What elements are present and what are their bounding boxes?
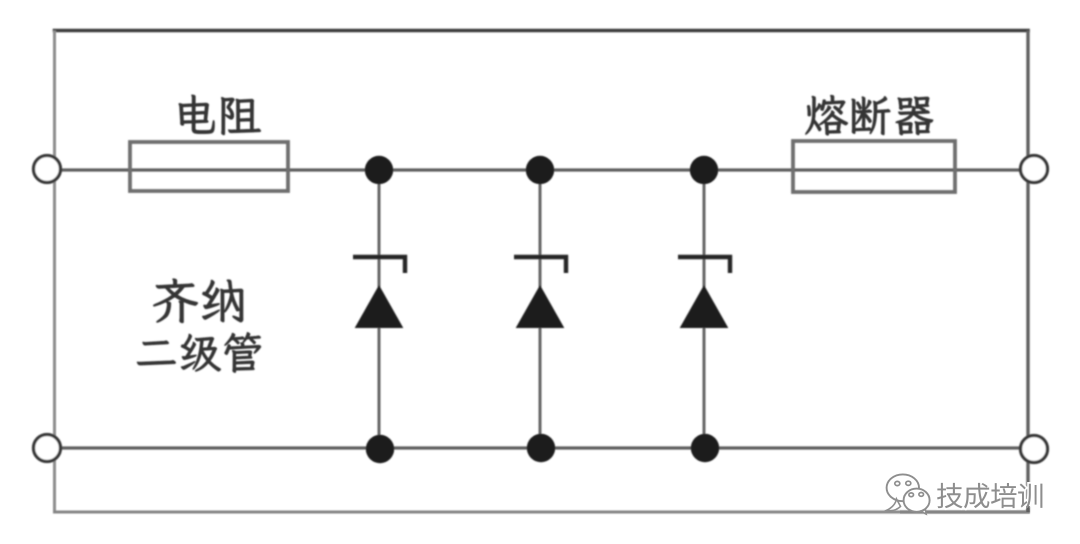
junction bottom node 2 <box>527 434 555 462</box>
resistor R (box symbol) <box>130 142 288 191</box>
terminal: bottom-left input <box>34 435 61 462</box>
terminal: top-right output <box>1021 156 1048 183</box>
zener diode D3 <box>678 257 730 328</box>
wire: zener branch 2 vertical <box>539 170 542 448</box>
label: fuse 熔断器 <box>806 95 933 135</box>
watermark text 技成培训 fill <box>937 483 1042 508</box>
label: zener diodes 齐纳二级管 <box>137 279 261 373</box>
wire: zener branch 1 vertical <box>378 170 381 448</box>
junction bottom node 3 <box>691 434 719 462</box>
wire: top bus (input to fuse) <box>59 168 1022 171</box>
zener diode D2 <box>514 257 566 328</box>
label: resistor 电阻 <box>179 95 261 135</box>
wire: zener branch 3 vertical <box>703 170 706 448</box>
wire: bottom frame edge redraw under watermark <box>900 511 1030 514</box>
zener diode D1 <box>353 257 405 328</box>
junction top node 1 <box>365 156 393 184</box>
terminal: bottom-right output <box>1021 436 1048 463</box>
watermark logo: chat bubbles <box>887 474 930 514</box>
junction bottom node 1 <box>366 435 394 463</box>
watermark text 技成培训 halo <box>937 483 1042 508</box>
wire: bottom bus (return) <box>59 446 1022 449</box>
fuse F (box symbol) <box>793 141 955 192</box>
junction top node 3 <box>690 156 718 184</box>
junction top node 2 <box>526 156 554 184</box>
terminal: top-left input <box>34 156 61 183</box>
